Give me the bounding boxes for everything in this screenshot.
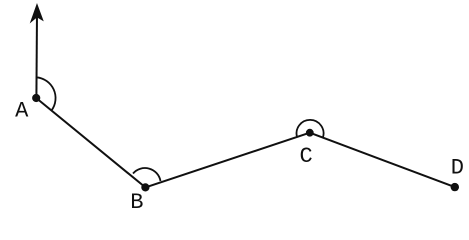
wire segment CD [310,133,455,187]
node B (dot) [141,183,149,191]
node A (dot) [32,94,40,102]
angle arc at B [133,168,161,181]
wire segment BC [145,133,309,188]
north arrow at A [31,5,43,98]
wire segment AB [36,98,145,187]
svg-text:C: C [300,144,313,169]
angle arc at C [297,120,324,138]
node D (dot) [451,183,459,191]
node C (dot) [306,129,314,137]
svg-text:A: A [15,98,29,123]
angle arc at A [36,77,55,110]
svg-text:D: D [451,155,464,180]
svg-text:B: B [130,190,143,215]
